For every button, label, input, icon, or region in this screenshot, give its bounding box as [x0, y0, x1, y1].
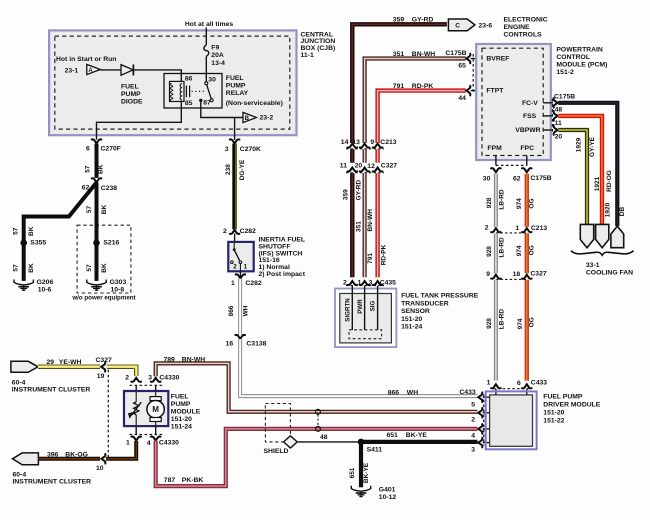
svg-text:151-20: 151-20: [401, 316, 422, 323]
svg-text:A: A: [88, 68, 93, 74]
svg-text:151-20: 151-20: [543, 409, 564, 416]
svg-text:4: 4: [147, 440, 151, 447]
connector C175B right dashed line: [551, 99, 553, 134]
svg-text:FTPT: FTPT: [486, 88, 504, 95]
svg-text:791: 791: [367, 253, 374, 264]
wire arrow A to diode: [100, 69, 121, 71]
svg-text:DB: DB: [619, 207, 626, 217]
CJB inner dashed border: [55, 36, 290, 129]
wire fuse to relay pin 30: [205, 56, 207, 82]
svg-text:RELAY: RELAY: [226, 90, 249, 97]
svg-text:G303: G303: [110, 279, 127, 286]
stub FPDM pin 5: [483, 396, 490, 398]
svg-text:C4330: C4330: [159, 375, 179, 382]
svg-text:M: M: [152, 405, 159, 414]
wire 974 OG PCM to C213: [525, 174, 529, 227]
fuel pump driver module outer box: [486, 391, 537, 449]
svg-text:BN-WH: BN-WH: [367, 209, 374, 232]
svg-text:FSS: FSS: [523, 113, 537, 120]
connector C4330 top dashed line: [130, 384, 163, 386]
svg-text:MODULE (PCM): MODULE (PCM): [556, 62, 607, 69]
stub FPDM pin 1: [495, 389, 497, 396]
stub FTPT into PCM: [471, 90, 482, 92]
svg-text:13: 13: [352, 139, 360, 146]
svg-text:6: 6: [86, 146, 90, 153]
svg-text:1920: 1920: [605, 202, 612, 217]
svg-text:14: 14: [341, 139, 349, 146]
connector C175B pin 65: [466, 54, 470, 64]
connector arrow C (23-6): [448, 19, 475, 31]
svg-text:BK-YE: BK-YE: [363, 462, 370, 483]
arrow connector B (23-2): [243, 112, 256, 122]
fuel pump driver module inner box: [490, 395, 533, 446]
label FUEL PUMP MODULE 151-20 151-24: [171, 393, 201, 430]
svg-text:6: 6: [517, 380, 521, 387]
connector C435 pin 1: [360, 281, 370, 285]
wire VBPWR 1929 GY-YE to cooling fan: [558, 130, 587, 224]
svg-text:BVREF: BVREF: [486, 56, 509, 63]
svg-text:2: 2: [343, 279, 347, 286]
label FUEL PUMP RELAY (Non-serviceable): [226, 75, 249, 97]
wire YE-WH C327 to module pin 2: [107, 367, 136, 376]
connector C175B pin 20: [554, 125, 558, 135]
svg-text:DRIVER MODULE: DRIVER MODULE: [543, 402, 600, 409]
svg-text:60-4: 60-4: [12, 380, 26, 387]
relay linkage dotted line: [192, 90, 206, 92]
connector C175B left dashed line: [472, 54, 474, 94]
svg-text:787: 787: [164, 477, 176, 484]
svg-text:C175B: C175B: [445, 50, 466, 57]
svg-text:GY-RD: GY-RD: [356, 180, 363, 201]
fuse F9 20A 13-4: [204, 45, 209, 56]
svg-text:11: 11: [340, 163, 347, 170]
stub FSS: [543, 115, 553, 117]
relay coil box: [170, 81, 185, 101]
relay switch contact 87a open circle: [210, 99, 213, 102]
svg-text:PWR: PWR: [357, 299, 364, 314]
wire 359 GY-RD C213 to C327: [350, 149, 354, 163]
svg-text:SIG: SIG: [370, 300, 377, 311]
svg-text:928: 928: [486, 197, 493, 208]
wire 791 RD-PK to PCM FTPT: [378, 91, 466, 143]
svg-text:PUMP: PUMP: [171, 401, 191, 408]
svg-text:PUMP: PUMP: [121, 91, 141, 98]
svg-text:C213: C213: [380, 139, 396, 146]
connector C175B pin 62: [522, 168, 532, 172]
connector C270F: [92, 139, 102, 143]
stub FPC: [526, 156, 528, 166]
label FUEL PUMP DRIVER MODULE 151-20 151-22: [543, 394, 600, 425]
stub C282 to IFS box: [234, 234, 236, 243]
wire 928 LB-RD C213 to C327: [494, 233, 498, 273]
cooling fan connector pentagon RD-OG: [596, 224, 609, 247]
svg-text:SIGRTN: SIGRTN: [345, 298, 352, 322]
svg-text:w/o power equipment: w/o power equipment: [71, 295, 135, 302]
svg-text:2: 2: [233, 264, 237, 271]
svg-text:1: 1: [244, 264, 248, 271]
splice S216: [93, 240, 100, 247]
svg-text:359: 359: [343, 189, 350, 200]
svg-text:C3138: C3138: [246, 341, 266, 348]
svg-text:BN-WH: BN-WH: [182, 357, 205, 364]
svg-text:1: 1: [487, 379, 491, 386]
wire from hot-at-all-times to fuse F9: [205, 28, 207, 46]
svg-text:3: 3: [148, 375, 152, 382]
wire 787 PK-BK module pin4 to FPDM pin 4: [156, 429, 478, 486]
stub IFS box to C282 pin 1: [239, 271, 241, 277]
stub pin3 into module: [155, 385, 157, 392]
fuel tank pressure sensor outer box: [335, 289, 396, 348]
ground G303: [87, 280, 106, 291]
connector C4330 bottom dashed line: [130, 434, 163, 436]
svg-text:866: 866: [228, 305, 235, 316]
wire 928 LB-RD C327 to FPDM pin 1: [494, 280, 498, 381]
svg-text:3: 3: [471, 447, 475, 454]
svg-text:CONTROL: CONTROL: [556, 54, 590, 61]
svg-text:C433: C433: [531, 379, 547, 386]
stub FPDM pin 3 left: [483, 442, 490, 444]
svg-text:LB-RD: LB-RD: [499, 237, 506, 258]
svg-text:1: 1: [126, 440, 130, 447]
svg-text:2: 2: [485, 225, 489, 232]
svg-text:351: 351: [355, 221, 362, 232]
stub PWR: [364, 286, 366, 330]
connector C433 top dashed line: [493, 388, 530, 390]
svg-text:CONTROLS: CONTROLS: [504, 32, 543, 39]
svg-text:1929: 1929: [575, 137, 582, 152]
svg-text:20: 20: [355, 163, 363, 170]
connector C327 inline dashed line: [107, 370, 109, 458]
wire 238 DG-YE C270K to C282: [234, 144, 236, 230]
stub SIG: [377, 286, 379, 330]
svg-text:BK-YE: BK-YE: [406, 432, 428, 439]
wire 651 BK-YE S411 to G401: [359, 442, 363, 487]
stub VBPWR: [543, 129, 553, 131]
connector C433 pin 6: [522, 384, 532, 388]
shield drain loop on 787 wire: [316, 427, 321, 432]
svg-text:30: 30: [208, 76, 216, 83]
svg-text:57: 57: [13, 227, 20, 235]
svg-text:C270K: C270K: [240, 146, 261, 153]
svg-text:2) Post impact: 2) Post impact: [259, 271, 306, 278]
svg-text:151-24: 151-24: [401, 324, 422, 331]
svg-text:2: 2: [223, 228, 227, 235]
connector C213 wire 791: [373, 144, 383, 148]
connector C4330 pin 3: [151, 378, 161, 382]
wire 351 BN-WH C213 to C327: [363, 149, 367, 163]
fuel tank pressure sensor inner box: [340, 294, 392, 343]
connector C433 pin 3: [478, 438, 482, 448]
connector C213 wire 351: [360, 144, 370, 148]
connector C238: [92, 178, 102, 182]
relay coil loops: [180, 83, 182, 100]
stub pin2 into module: [135, 385, 137, 392]
wire 651 BK-YE S411 to FPDM pin 3: [361, 440, 478, 444]
shield splice diamond: [284, 436, 298, 448]
svg-text:16: 16: [226, 341, 234, 348]
svg-text:ENGINE: ENGINE: [504, 24, 531, 31]
svg-text:FUEL PUMP: FUEL PUMP: [543, 394, 583, 401]
svg-text:FUEL: FUEL: [226, 75, 244, 82]
connector arrow instrument cluster (YE-WH): [11, 361, 38, 372]
svg-text:BK: BK: [98, 164, 105, 174]
svg-text:23-1: 23-1: [65, 68, 79, 75]
svg-text:SENSOR: SENSOR: [401, 308, 430, 315]
stub SIGRTN: [351, 286, 353, 330]
svg-text:62: 62: [513, 175, 521, 182]
svg-text:151-20: 151-20: [171, 416, 192, 423]
svg-text:23-6: 23-6: [479, 23, 493, 30]
label POWERTRAIN CONTROL MODULE (PCM) 151-2: [556, 47, 607, 76]
svg-text:Hot in Start or Run: Hot in Start or Run: [56, 56, 116, 63]
svg-text:85: 85: [185, 100, 193, 107]
svg-text:G401: G401: [379, 487, 396, 494]
svg-text:791: 791: [393, 83, 405, 90]
svg-text:BK: BK: [101, 263, 108, 273]
svg-text:30: 30: [483, 175, 491, 182]
svg-text:(Non-serviceable): (Non-serviceable): [226, 100, 283, 107]
svg-text:151-22: 151-22: [543, 417, 564, 424]
connector C4330 pin 1: [131, 437, 141, 441]
connector C175B pin 44: [466, 86, 470, 96]
svg-text:11: 11: [555, 120, 562, 127]
svg-text:3: 3: [369, 279, 373, 286]
svg-text:FPC: FPC: [520, 145, 534, 152]
arrow connector A (23-1): [87, 64, 101, 74]
connector C213 right dashed line: [496, 232, 527, 234]
PCM inner dashed box: [482, 48, 543, 155]
splice S355: [20, 240, 27, 247]
inertia fuel shutoff IFS switch box: [228, 242, 253, 271]
svg-text:10-12: 10-12: [379, 494, 397, 501]
connector C327 wire 359: [348, 168, 358, 172]
svg-text:OG: OG: [528, 198, 535, 208]
central junction box (CJB) outline: [49, 30, 296, 135]
svg-text:FPM: FPM: [487, 145, 502, 152]
svg-text:TRANSDUCER: TRANSDUCER: [401, 300, 449, 307]
fuel level sender symbol: [129, 392, 142, 425]
ground G206: [14, 280, 33, 291]
stub FC-V: [543, 102, 553, 104]
svg-text:13-4: 13-4: [211, 60, 225, 67]
svg-text:10: 10: [96, 465, 104, 472]
stub pin1 below module: [135, 426, 137, 434]
svg-text:974: 974: [516, 198, 523, 209]
svg-text:4: 4: [471, 433, 475, 440]
dashed box w/o power equipment: [77, 225, 131, 293]
wire 359 GY-RD C327 to C435: [350, 173, 354, 277]
stub FPDM pin 6: [526, 389, 528, 396]
stub BVREF into PCM: [471, 58, 482, 60]
svg-text:C: C: [455, 23, 460, 30]
svg-text:S216: S216: [103, 240, 119, 247]
svg-text:BK: BK: [101, 205, 108, 215]
svg-text:12: 12: [367, 163, 375, 170]
svg-text:1: 1: [231, 280, 235, 287]
svg-text:974: 974: [516, 245, 523, 256]
wire 974 OG C327 to FPDM pin 6: [525, 280, 529, 381]
svg-text:C282: C282: [245, 280, 261, 287]
svg-text:FUEL: FUEL: [121, 84, 139, 91]
wire 928 LB-RD PCM to C213: [494, 174, 498, 227]
svg-text:238: 238: [225, 164, 232, 175]
svg-text:RD-PK: RD-PK: [381, 244, 388, 265]
svg-text:19: 19: [97, 373, 105, 380]
wire 57 BK branch to S355: [24, 183, 97, 243]
wire 57 BK C238 to S216: [95, 183, 99, 243]
svg-text:866: 866: [388, 390, 400, 397]
stub FPDM pin 2 left: [483, 412, 490, 414]
svg-text:151-24: 151-24: [171, 423, 192, 430]
svg-text:PK-BK: PK-BK: [182, 477, 204, 484]
relay switch blade: [207, 85, 212, 99]
svg-text:57: 57: [86, 206, 93, 214]
connector C175B pin 48: [554, 98, 558, 108]
svg-text:928: 928: [486, 318, 493, 329]
svg-text:C238: C238: [101, 185, 117, 192]
svg-text:LB-RD: LB-RD: [499, 309, 506, 330]
svg-text:MODULE: MODULE: [171, 408, 201, 415]
svg-text:SHIELD: SHIELD: [264, 448, 289, 455]
svg-text:VBPWR: VBPWR: [515, 127, 540, 134]
svg-text:1921: 1921: [594, 176, 601, 191]
svg-text:11-1: 11-1: [301, 52, 314, 59]
svg-text:9: 9: [486, 271, 490, 278]
connector C213 dashed line: [346, 148, 384, 150]
wire relay pin 85 to CJB exit C270F: [97, 102, 182, 140]
relay core bars: [186, 86, 189, 98]
wire relay pin 87 to 23-2 branch: [201, 100, 243, 117]
connector C435 dashed line: [346, 285, 384, 287]
connector C4330 pin 2: [131, 378, 141, 382]
cooling fan connector pentagon GY-YE: [580, 224, 593, 247]
connector C327 pin 18 right: [522, 275, 532, 279]
connector C213 pin 1 right: [522, 228, 532, 232]
svg-text:C282: C282: [240, 228, 256, 235]
connector C327 pin 10: [101, 454, 105, 464]
label FUEL TANK PRESSURE TRANSDUCER SENSOR 151-20 151-24: [401, 293, 479, 331]
wire FC-V 1920 DB to cooling fan: [558, 103, 617, 226]
svg-text:1: 1: [515, 225, 519, 232]
svg-text:151-2: 151-2: [556, 69, 574, 76]
svg-text:C327: C327: [530, 271, 546, 278]
cooling fan brace: [571, 251, 634, 256]
svg-text:10-8: 10-8: [111, 287, 125, 294]
svg-text:PUMP: PUMP: [226, 83, 246, 90]
svg-text:FUEL: FUEL: [171, 393, 189, 400]
svg-text:INSTRUMENT CLUSTER: INSTRUMENT CLUSTER: [12, 387, 91, 394]
svg-text:928: 928: [486, 246, 493, 257]
wire 57 BK S216 to G303: [95, 243, 99, 281]
svg-text:C327: C327: [381, 163, 397, 170]
stub pin4 below module: [155, 426, 157, 434]
svg-text:BK: BK: [28, 263, 35, 273]
svg-text:9: 9: [370, 139, 374, 146]
connector C433 pin 1: [491, 384, 501, 388]
wire 57 BK S355 to G206: [22, 243, 26, 281]
connector C3138: [235, 335, 245, 339]
ground G401: [351, 486, 370, 497]
label ELECTRONIC ENGINE CONTROLS: [504, 16, 548, 38]
svg-text:C435: C435: [380, 279, 396, 286]
stub FPDM pin 4 left: [483, 428, 490, 430]
svg-text:86: 86: [185, 76, 193, 83]
connector C327 dashed line: [346, 172, 384, 174]
connector C213 wire 359: [348, 144, 358, 148]
svg-text:651: 651: [387, 432, 399, 439]
connector C433 pin 5: [478, 392, 482, 402]
svg-text:C175B: C175B: [530, 175, 551, 182]
wire 789 BN-WH module pin3 to FPDM pin 2: [156, 363, 478, 411]
svg-text:BN-WH: BN-WH: [412, 51, 435, 58]
svg-text:33-1: 33-1: [586, 262, 600, 269]
connector C327 pin 19: [101, 362, 105, 372]
svg-text:5: 5: [471, 402, 475, 409]
svg-text:FUEL TANK PRESSURE: FUEL TANK PRESSURE: [401, 293, 479, 300]
connector C175B pin 11: [554, 111, 558, 121]
svg-text:RD-OG: RD-OG: [606, 170, 613, 192]
svg-text:57: 57: [86, 264, 93, 272]
relay terminal 87 junction: [199, 99, 202, 102]
svg-text:INSTRUMENT CLUSTER: INSTRUMENT CLUSTER: [13, 478, 92, 485]
svg-text:57: 57: [85, 165, 92, 173]
relay coil winding zigzag: [170, 83, 173, 102]
wire 48 shield drain to S411: [297, 441, 361, 443]
connector C433 left dashed line: [483, 395, 485, 446]
label F9 20A 13-4: [211, 45, 225, 67]
svg-text:ELECTRONIC: ELECTRONIC: [504, 16, 548, 23]
wire BK-OG C327 to module pin 1: [106, 441, 136, 459]
svg-text:Hot at all times: Hot at all times: [185, 21, 234, 28]
svg-text:DIODE: DIODE: [121, 98, 143, 105]
svg-text:C327: C327: [96, 357, 112, 364]
sensor element dashed box: [349, 330, 382, 339]
connector C327 right dashed line: [496, 278, 527, 280]
svg-text:2: 2: [125, 375, 129, 382]
shield drain dashed link: [317, 414, 319, 426]
svg-text:3: 3: [225, 146, 229, 153]
svg-text:C213: C213: [531, 225, 547, 232]
svg-text:2: 2: [471, 417, 475, 424]
powertrain control module PCM outline: [476, 44, 551, 160]
connector C213 pin 2 right: [491, 228, 501, 232]
wire 866 WH C3138 to FPDM pin 5: [240, 339, 477, 396]
svg-text:48: 48: [320, 434, 328, 441]
wire 974 OG C213 to C327: [525, 233, 529, 273]
connector C327 pin 9 right: [491, 275, 501, 279]
connector C435 pin 2: [348, 281, 358, 285]
IFS switch internal: [231, 243, 242, 271]
svg-text:S355: S355: [30, 240, 46, 247]
svg-text:C433: C433: [459, 389, 475, 396]
svg-text:351: 351: [393, 51, 405, 58]
svg-text:C4330: C4330: [159, 440, 179, 447]
relay switch contact 30: [205, 82, 208, 85]
svg-text:OG: OG: [528, 245, 535, 255]
wire 351 BN-WH C327 to C435: [363, 173, 367, 277]
connector C282 pin 1: [236, 274, 246, 278]
wire 57 BK C270F to C238: [95, 144, 99, 178]
svg-text:23-2: 23-2: [260, 115, 274, 122]
svg-text:G206: G206: [37, 279, 54, 286]
connector C4330 pin 4: [151, 437, 161, 441]
wire 29 YE-WH cluster to C327: [38, 365, 100, 369]
label FUEL PUMP DIODE: [121, 84, 143, 106]
svg-text:48: 48: [555, 107, 563, 114]
connector C282 pin 2: [230, 230, 240, 234]
wire diode to relay coil pin 86: [134, 70, 182, 82]
svg-text:1: 1: [358, 279, 362, 286]
